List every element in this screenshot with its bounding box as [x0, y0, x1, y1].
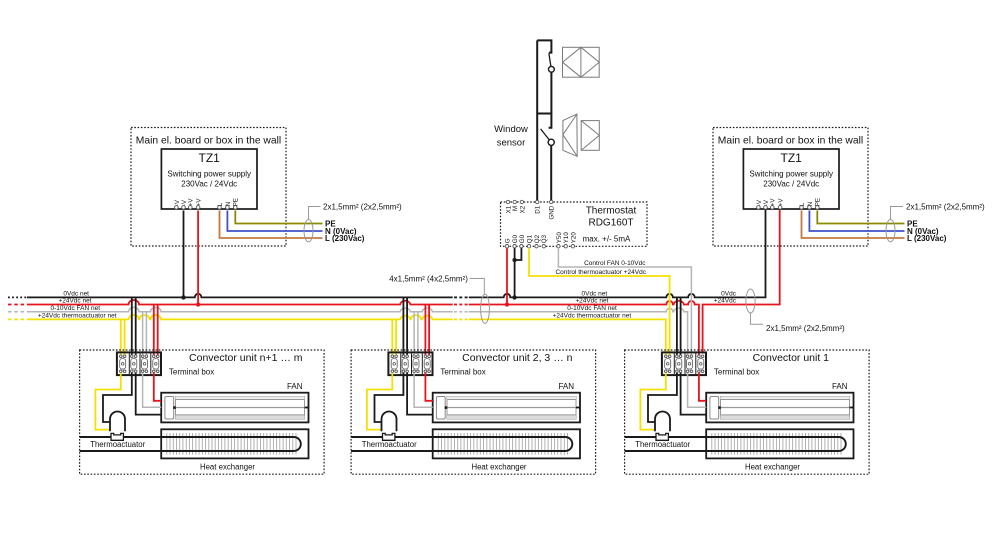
svg-text:L (230Vac): L (230Vac) [325, 234, 365, 243]
svg-text:Y20: Y20 [570, 232, 577, 244]
wire window sensor left conductor to X-in D1 [536, 40, 538, 202]
junction thermostat G0 on 0Vdc net [512, 295, 516, 299]
svg-text:max. +/- 5mA: max. +/- 5mA [583, 234, 631, 243]
pipe loop with U-turn unit 2, 3 ... n [351, 437, 572, 451]
svg-text:Q3: Q3 [541, 234, 548, 243]
svg-text:Y50: Y50 [556, 232, 563, 244]
wire fan +24Vdc (red) unit 1 [699, 373, 706, 401]
wire +24Vdc thermoactuator net bus (yellow), dashed continuation at left [8, 315, 666, 356]
power supply TZ1 (right) [743, 149, 839, 209]
svg-text:Heat exchanger: Heat exchanger [200, 462, 255, 471]
svg-text:Convector unit 1: Convector unit 1 [753, 352, 830, 364]
svg-text:+24Vdc net: +24Vdc net [58, 298, 91, 305]
svg-text:sensor: sensor [497, 138, 526, 149]
wire thermoactuator 0Vdc (black) unit n+1 ... m [103, 373, 132, 422]
junction left TZ1 0Vdc [181, 295, 185, 299]
svg-text:RDG160T: RDG160T [588, 218, 633, 229]
thermoactuator unit 2, 3 ... n [382, 412, 397, 441]
wire thermoactuator 0Vdc (black) unit 1 [648, 373, 677, 422]
svg-text:Control thermoactuator +24Vdc: Control thermoactuator +24Vdc [555, 269, 646, 276]
cable marker ellipse 4-wire bus [481, 294, 490, 323]
wire Control FAN 0-10Vdc (grey) from Y50 to unit 1 [558, 248, 691, 356]
cable marker ellipse left TZ1 mains [304, 220, 313, 242]
svg-text:+24Vdc net: +24Vdc net [575, 298, 608, 305]
svg-text:Switching power supply: Switching power supply [749, 170, 833, 179]
svg-text:+V: +V [196, 198, 203, 207]
heat exchanger unit n+1 ... m [161, 429, 308, 458]
svg-text:Thermostat: Thermostat [586, 205, 637, 216]
cable marker ellipse right 24V cable [746, 289, 755, 313]
svg-text:230Vac / 24Vdc: 230Vac / 24Vdc [181, 180, 237, 189]
svg-text:M: M [512, 206, 519, 211]
wire bus taps down to terminal box of convector unit 1 (0Vdc pair) [677, 297, 681, 355]
wire N (0Vac) blue, left TZ1 [227, 211, 322, 232]
svg-text:Terminal box: Terminal box [169, 367, 214, 376]
fan assembly unit 1 [706, 393, 853, 423]
wire PE olive, right TZ1 [817, 211, 904, 224]
svg-text:PE: PE [233, 198, 240, 206]
wire Control thermoactuator +24Vdc (yellow) from Q1 to unit 1 [529, 248, 670, 356]
svg-text:0Vdc net: 0Vdc net [63, 291, 89, 298]
terminal block unit n+1 ... m [117, 352, 161, 375]
terminal block unit 2, 3 ... n [388, 352, 432, 375]
node labels of the four nets (left end) [38, 291, 117, 320]
svg-text:2x1,5mm² (2x2,5mm²): 2x1,5mm² (2x2,5mm²) [323, 202, 402, 211]
svg-text:TZ1: TZ1 [781, 151, 803, 165]
svg-text:230Vac / 24Vdc: 230Vac / 24Vdc [763, 180, 819, 189]
wire fan 0-10Vdc (grey) unit 1 [688, 373, 707, 408]
callout leader right mains cable [891, 207, 904, 220]
terminal block unit 1 [662, 352, 706, 375]
wire bus taps down to terminal box of convector unit 2,3 [392, 297, 429, 355]
wire +24Vdc from left TZ1 +V to bus [197, 211, 199, 305]
enclosure convector unit 1 [625, 350, 870, 474]
wire +24Vdc net bus (red), dashed continuation at left [8, 209, 780, 356]
wire L (230Vac) brown, right TZ1 [802, 211, 905, 239]
svg-text:4x1,5mm² (4x2,5mm²): 4x1,5mm² (4x2,5mm²) [389, 274, 468, 283]
svg-text:Convector unit n+1 … m: Convector unit n+1 … m [189, 352, 303, 364]
svg-text:Q2: Q2 [534, 234, 541, 243]
wire fan 0-10Vdc (grey) unit n+1 ... m [143, 373, 162, 408]
junction jumper on G0 wire [512, 258, 516, 262]
svg-text:G: G [504, 238, 511, 243]
wire bus taps down to terminal box of convector unit n+1 [121, 297, 158, 355]
wire thermoactuator +24Vdc (yellow) unit 2, 3 ... n [367, 373, 392, 430]
wire 0Vdc black from thermostat G0 to bus [514, 248, 516, 298]
callout leader right 24V cable [751, 313, 764, 324]
svg-text:+V: +V [188, 198, 195, 207]
jumper G0 to G0 at thermostat [515, 248, 522, 260]
svg-text:Control FAN 0-10Vdc: Control FAN 0-10Vdc [584, 260, 646, 267]
enclosure convector unit 2, 3 ... n [351, 350, 595, 474]
svg-text:G0: G0 [519, 234, 526, 243]
svg-text:2x1,5mm² (2x2,5mm²): 2x1,5mm² (2x2,5mm²) [766, 324, 845, 333]
wire fan +24Vdc (red) unit n+1 ... m [154, 373, 161, 401]
svg-text:Thermoactuator: Thermoactuator [635, 440, 690, 449]
svg-text:Switching power supply: Switching power supply [167, 170, 251, 179]
wire fan 0Vdc (black) unit 1 [681, 373, 707, 415]
svg-text:GND: GND [549, 205, 556, 219]
svg-text:Heat exchanger: Heat exchanger [745, 462, 800, 471]
wire PE olive, left TZ1 [235, 211, 322, 224]
svg-text:-V: -V [756, 199, 763, 206]
callout leader left mains cable [309, 207, 321, 220]
svg-text:Main el. board or box in the w: Main el. board or box in the wall [718, 136, 863, 147]
thermoactuator unit 1 [655, 412, 670, 441]
svg-text:Y10: Y10 [563, 232, 570, 244]
fan assembly unit n+1 ... m [161, 393, 308, 423]
wire +24Vdc red from thermostat G to bus [506, 248, 508, 305]
svg-text:FAN: FAN [558, 382, 574, 391]
wire fan +24Vdc (red) unit 2, 3 ... n [425, 373, 432, 401]
thermostat top terminals X1 M X2 D1 GND [505, 200, 555, 219]
svg-text:Thermoactuator: Thermoactuator [362, 440, 417, 449]
cable marker ellipse right TZ1 mains [886, 220, 895, 242]
svg-text:2x1,5mm² (2x2,5mm²): 2x1,5mm² (2x2,5mm²) [906, 202, 985, 211]
svg-text:TZ1: TZ1 [199, 151, 221, 165]
svg-text:Thermoactuator: Thermoactuator [90, 440, 145, 449]
junction left TZ1 +24Vdc [196, 302, 200, 306]
thermoactuator unit n+1 ... m [110, 412, 125, 441]
svg-text:0-10Vdc FAN net: 0-10Vdc FAN net [51, 305, 101, 312]
enclosure: Main el. board or box in the wall (left) [131, 128, 286, 247]
svg-text:+24Vdc: +24Vdc [714, 298, 737, 305]
wire 0Vdc net bus (black), dashed continuation at left [8, 209, 766, 297]
node labels of the four nets (middle) [553, 291, 632, 320]
svg-text:-V: -V [174, 199, 181, 206]
callout leader 4-wire bus [470, 279, 485, 295]
wire N (0Vac) blue, right TZ1 [809, 211, 904, 232]
thermostat bottom terminals G G0 G0 Q1 Q2 Q3 Y50 Y10 Y20 [504, 232, 577, 248]
svg-text:D1: D1 [535, 205, 542, 213]
svg-text:+24Vdc thermoactuator net: +24Vdc thermoactuator net [38, 313, 117, 320]
svg-text:L (230Vac): L (230Vac) [907, 234, 947, 243]
thermostat RDG160T enclosure [501, 202, 648, 246]
wire thermoactuator 0Vdc (black) unit 2, 3 ... n [375, 373, 404, 422]
wire thermoactuator +24Vdc (yellow) unit 1 [640, 373, 665, 430]
svg-text:FAN: FAN [832, 382, 848, 391]
svg-text:0Vdc: 0Vdc [721, 291, 737, 298]
node label Window sensor [494, 124, 528, 149]
wire fan 0Vdc (black) unit 2, 3 ... n [407, 373, 433, 415]
heat exchanger unit 1 [706, 429, 853, 458]
wire L (230Vac) brown, left TZ1 [220, 211, 323, 239]
node labels 0Vdc / +24Vdc (right) [714, 291, 737, 305]
svg-text:PE: PE [815, 198, 822, 206]
wire 0-10Vdc FAN net bus (grey), dashed continuation at left [8, 307, 688, 355]
window symbol closed (glyph) [563, 47, 600, 77]
pipe loop with U-turn unit 1 [625, 437, 846, 451]
svg-text:0Vdc net: 0Vdc net [582, 291, 608, 298]
switch window sensor 2 (open) [537, 114, 554, 203]
svg-text:+V: +V [770, 198, 777, 207]
svg-text:+V: +V [778, 198, 785, 207]
power supply TZ1 (left) [161, 149, 257, 209]
wire thermoactuator +24Vdc (yellow) unit n+1 ... m [95, 373, 120, 430]
pipe loop with U-turn unit n+1 ... m [80, 437, 301, 451]
wire fan 0-10Vdc (grey) unit 2, 3 ... n [414, 373, 433, 408]
wire 0Vdc from left TZ1 -V to bus [183, 211, 185, 298]
junction thermostat G on +24Vdc net [505, 302, 509, 306]
wire fan 0Vdc (black) unit n+1 ... m [136, 373, 162, 415]
svg-text:X2: X2 [519, 205, 526, 213]
svg-text:+24Vdc thermoactuator net: +24Vdc thermoactuator net [553, 313, 632, 320]
svg-text:Terminal box: Terminal box [440, 367, 485, 376]
svg-text:Convector unit 2, 3 … n: Convector unit 2, 3 … n [462, 352, 572, 364]
svg-text:Terminal box: Terminal box [714, 367, 759, 376]
svg-text:0-10Vdc FAN net: 0-10Vdc FAN net [567, 305, 617, 312]
switch window sensor 1 (closed) [537, 40, 554, 113]
svg-text:FAN: FAN [287, 382, 303, 391]
svg-text:Heat exchanger: Heat exchanger [471, 462, 526, 471]
fan assembly unit 2, 3 ... n [433, 393, 580, 423]
svg-text:Window: Window [494, 124, 528, 135]
svg-text:Q1: Q1 [526, 234, 533, 243]
enclosure convector unit n+1 ... m [80, 350, 325, 474]
heat exchanger unit 2, 3 ... n [433, 429, 580, 458]
enclosure: Main el. board or box in the wall (right) [713, 128, 868, 247]
window symbol open (glyph) [563, 114, 599, 156]
svg-text:Main el. board or box in the w: Main el. board or box in the wall [136, 136, 281, 147]
